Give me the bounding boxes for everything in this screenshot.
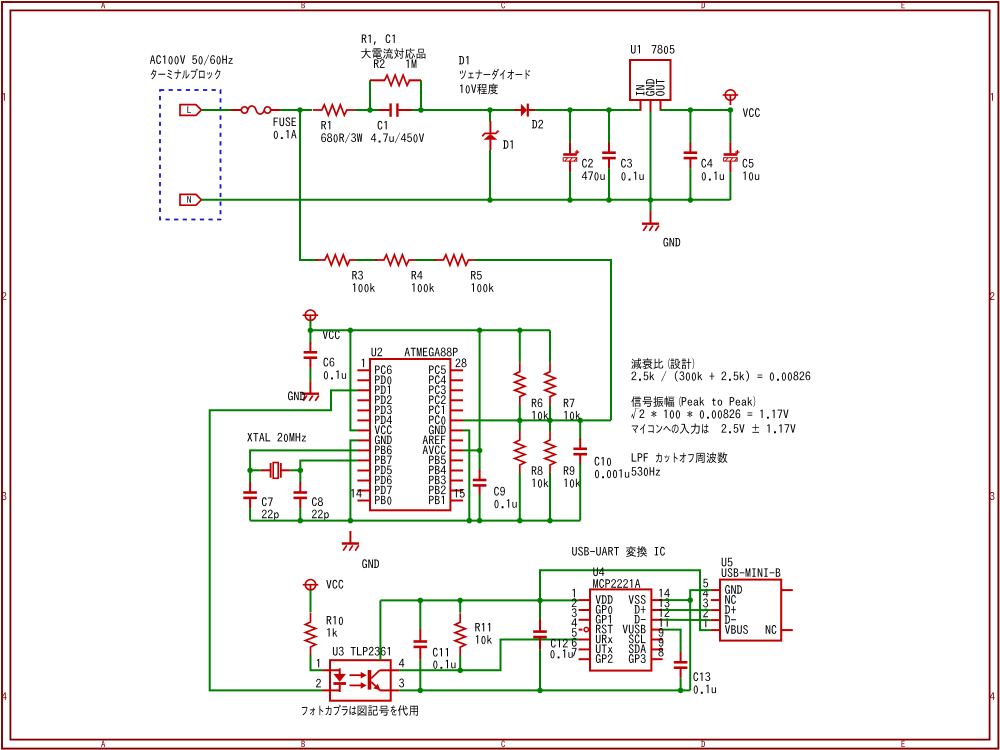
diode D2: [514, 104, 535, 117]
U2 pin label VCC left: [375, 425, 392, 434]
resistor R3: [316, 255, 359, 265]
U3 pin number 2: [316, 679, 321, 688]
resistor R7: [545, 363, 555, 406]
U4 pin label GP3: [629, 654, 646, 663]
wire VCC to R6: [519, 330, 521, 362]
frame column label C top: [501, 2, 505, 9]
value ATMEGA88P: [405, 348, 458, 357]
pin label GND: [646, 79, 655, 96]
label R3: [352, 271, 363, 280]
U2 pin label PB7 left: [375, 456, 392, 464]
value 0.1u C13: [694, 685, 716, 694]
U2 pin number 15: [455, 489, 465, 498]
U5 pin stubs right NC: [781, 590, 793, 630]
U4 pin number 9 right: [659, 638, 664, 647]
junction U2 GND right rail: [467, 518, 473, 524]
capacitor C9: [473, 470, 487, 496]
regulator U1 7805 body: [630, 60, 671, 100]
frame column label A top: [101, 2, 105, 8]
wire to C3: [608, 110, 610, 143]
junction U2 GND rail: [348, 518, 354, 524]
port L: [180, 105, 201, 116]
U5 pin stubs left: [711, 590, 720, 630]
wire rail to U3 top: [379, 600, 381, 660]
U2 pin stubs right: [450, 370, 463, 500]
wire fuse node to R3: [300, 110, 318, 260]
value 10k R6: [532, 411, 548, 420]
U1 pin IN stub: [640, 100, 642, 111]
U2 pin label PC4 right: [429, 375, 446, 384]
frame column label E bottom: [902, 741, 905, 747]
label C10: [595, 457, 612, 466]
wire to C7: [249, 470, 251, 483]
label R8: [532, 466, 543, 475]
U4 pin label SDA: [629, 644, 646, 653]
wire to D1: [489, 110, 491, 122]
U4 pin number 3 left: [572, 608, 577, 617]
net label GND mcu left: [288, 391, 305, 400]
comment D1: [459, 56, 468, 64]
U2 pin stubs left: [357, 370, 370, 500]
value 470u: [582, 172, 605, 181]
comment XTAL: [247, 433, 270, 441]
junction C11 bottom: [418, 688, 424, 694]
wire to C12: [539, 600, 541, 622]
U2 pin label PD1 left: [375, 386, 390, 394]
value 0.1u C11: [433, 660, 455, 669]
U2 pin label GND right: [429, 425, 446, 434]
U2 pin label PC1 right: [429, 405, 444, 414]
wire VCC to U2 pin: [350, 330, 357, 430]
U4 pin number 2 left: [572, 598, 577, 607]
U5 pin label D+: [725, 605, 736, 613]
U4 pin label UTx: [596, 645, 613, 654]
frame column label B bottom: [302, 741, 306, 747]
pin label OUT: [656, 79, 665, 96]
wire C4 to GND rail: [689, 168, 691, 200]
comment terminal block: [151, 69, 221, 80]
value 7805: [652, 45, 675, 54]
wire PB7 to crystal: [300, 460, 357, 470]
wire C11 down: [419, 659, 421, 690]
wire C6 to ground: [309, 368, 311, 381]
comment annotation: [631, 358, 694, 369]
label R6: [532, 398, 543, 407]
value 10k R8: [532, 479, 548, 488]
resistor R2 leads: [370, 79, 385, 81]
U4 pin label URx: [596, 635, 613, 644]
frame column label B top: [302, 2, 306, 8]
U4 pin number 6 left: [572, 638, 577, 647]
ground symbol under C6: [302, 381, 319, 401]
junction fuse node: [297, 107, 303, 113]
wire fuse to R1: [280, 109, 312, 111]
junction C10 top: [577, 418, 583, 424]
port N: [180, 194, 201, 205]
U5 pin label D-: [725, 615, 736, 623]
U4 pin label SCL: [629, 634, 646, 643]
U3 phototransistor: [368, 670, 391, 690]
wire C7 down: [249, 508, 251, 520]
U4 pin number 4 left: [572, 618, 577, 626]
wire R2 right riser: [420, 80, 422, 110]
label U1: [631, 45, 640, 54]
junction R8 bottom: [517, 518, 523, 524]
comment high-current parts: [361, 48, 425, 59]
junction VCC to C9 branch: [477, 328, 483, 334]
label C2: [582, 159, 593, 168]
pin label IN: [636, 85, 644, 95]
value 22p C7: [262, 510, 279, 520]
label C5: [743, 159, 754, 168]
junction C4 bottom: [688, 197, 694, 203]
label C6: [324, 358, 335, 367]
label R10: [327, 616, 343, 625]
wire AVCC: [463, 449, 480, 451]
U4 RST inversion bubble: [584, 627, 588, 631]
junction R7-R9 node: [547, 418, 553, 424]
crystal X1 20MHz: [261, 463, 290, 479]
capacitor C12: [533, 619, 547, 649]
wire C10 down: [579, 463, 581, 521]
U5 pin number 3: [703, 599, 708, 608]
wire to C4: [689, 110, 691, 143]
wire R2 left riser: [369, 80, 371, 110]
net label GND under U2: [362, 559, 379, 568]
wire AVCC to C9: [479, 450, 481, 471]
junction C2 top: [567, 107, 573, 113]
value 0.1u C4: [702, 172, 724, 181]
value 0.001u: [595, 469, 629, 478]
wire R7 to node: [549, 405, 551, 421]
junction node R1-C1: [367, 107, 373, 113]
value 1k: [327, 628, 337, 636]
wire to C8: [299, 470, 301, 483]
wire node to R9: [549, 420, 551, 431]
comment about 10V: [460, 84, 498, 95]
wire VCC rail: [310, 329, 550, 331]
capacitor C4: [684, 143, 698, 169]
comment R1, C1: [362, 34, 395, 45]
U2 pin label PB5 right: [429, 456, 446, 465]
U1 pin OUT stub: [660, 100, 662, 111]
wire USB GND down to rail: [690, 590, 711, 690]
capacitor C3: [602, 143, 616, 169]
U2 pin label PD0 left: [375, 376, 391, 385]
U4 pin number 1 left: [573, 589, 575, 597]
wire OUT to VCC: [661, 109, 731, 111]
power symbol VCC mcu: [303, 310, 319, 325]
optocoupler U3 TLP2361 body: [330, 660, 391, 701]
wire to C6: [309, 330, 311, 343]
junction C13 bottom: [678, 688, 684, 694]
junction R11 opto out: [457, 668, 463, 674]
wire D-: [663, 619, 711, 621]
label D2: [532, 120, 543, 129]
frame row label 1 left: [3, 93, 5, 101]
capacitor C8: [294, 482, 308, 508]
U2 pin label PC2 right: [429, 395, 446, 404]
U2 pin label PD5 left: [375, 466, 392, 475]
net label GND: [663, 238, 680, 247]
U4 pin stubs left: [579, 600, 590, 659]
net label VCC mcu: [323, 330, 340, 339]
value MCP2221A: [593, 579, 640, 588]
U5 pin number 2: [703, 609, 708, 618]
junction crystal right: [298, 468, 304, 474]
wire GND rail under U2: [250, 520, 580, 522]
value 0.1A: [274, 130, 297, 139]
comment USB-UART IC: [572, 546, 665, 557]
junction node C1 right: [418, 107, 424, 113]
wire VCC to R7: [549, 330, 551, 362]
U2 pin label PB1 right: [429, 496, 444, 504]
resistor R2: [376, 75, 419, 85]
label C8: [312, 497, 323, 506]
wire R10 to opto pin1: [311, 655, 323, 670]
wire C12 down: [539, 649, 541, 690]
comment annotation: [631, 408, 788, 419]
wire R11 down: [459, 655, 461, 670]
U4 pin number 5 left: [572, 628, 577, 637]
label C12: [551, 639, 568, 648]
wire VCC to AVCC: [479, 330, 481, 450]
net label VCC top: [743, 108, 760, 117]
U2 pin label PC3 right: [429, 385, 446, 394]
U4 pin label VDD: [596, 595, 613, 603]
wire VUSB to C13: [663, 630, 681, 653]
wire to C5: [729, 110, 731, 142]
U5 pin number 5: [703, 579, 708, 588]
capacitor C7: [243, 482, 257, 508]
junction VCC mcu: [308, 328, 314, 334]
value 4.7u/450V: [371, 133, 424, 144]
U2 pin label PC0 right: [429, 415, 445, 424]
U4 pin label VUSB: [623, 625, 646, 634]
comment annotation: [632, 467, 661, 476]
net label VCC opto: [326, 580, 343, 589]
wire node to C10: [579, 420, 581, 439]
value 10u: [743, 172, 759, 181]
junction D1 top: [487, 107, 493, 113]
wire VCC to R10: [310, 590, 312, 613]
frame row label 2 right: [990, 292, 995, 300]
wire D2 to U1 IN: [535, 109, 641, 111]
U2 pin label AREF right: [423, 436, 446, 444]
value 10k R11: [476, 635, 492, 644]
junction R6-R8 node: [517, 418, 523, 424]
value USB-MINI-B: [722, 568, 781, 577]
U4 pin label D-: [635, 615, 646, 623]
U3 pin number 1: [317, 659, 319, 667]
comment annotation: [631, 371, 810, 382]
wire R4 to R5: [415, 259, 437, 261]
junction R11 top: [457, 598, 463, 604]
U3 pin 2 stub: [323, 689, 340, 691]
capacitor C1: [379, 103, 413, 116]
wire U2 GND right down: [463, 430, 469, 520]
resistor R8: [515, 431, 525, 474]
resistor R6: [515, 363, 525, 406]
wire D+: [663, 609, 711, 611]
resistor R9: [545, 431, 555, 474]
comment annotation: [632, 424, 796, 435]
U3 pin 4 stub: [391, 669, 400, 671]
power symbol VCC opto: [303, 580, 319, 595]
junction VSS GND node: [687, 597, 693, 603]
value 100k R3: [353, 283, 375, 292]
U2 pin label PD7 left: [375, 486, 392, 494]
U4 pin number 8 right: [658, 648, 663, 657]
frame row label 2 left: [2, 292, 7, 300]
wire R6 to node: [519, 405, 521, 421]
wire R8 down: [519, 473, 521, 521]
capacitor C13: [674, 652, 688, 678]
wire N rail: [201, 199, 730, 201]
ground symbol under U1: [642, 211, 659, 231]
wire node to R8: [519, 420, 521, 431]
wire R9 down: [549, 473, 551, 521]
U2 pin label PB6 left: [375, 445, 392, 454]
frame row label 3 right: [990, 492, 995, 500]
label C13: [693, 672, 710, 681]
comment annotation: [631, 396, 755, 407]
U4 pin number 13 right: [659, 598, 669, 607]
wire C9 down: [479, 494, 481, 520]
capacitor C11: [414, 629, 428, 659]
junction VCC to R6: [517, 328, 523, 334]
U2 pin label AVCC right: [423, 445, 446, 454]
frame column label C bottom: [501, 741, 505, 748]
junction C12 top: [537, 598, 543, 604]
wire C5 to GND rail: [729, 172, 731, 200]
U3 pin number 4: [399, 659, 404, 667]
U4 pin label GP1: [596, 615, 611, 624]
U2 pin number 14: [351, 489, 361, 497]
U5 pin number 4: [703, 589, 708, 597]
value 0.1u C6: [324, 370, 346, 379]
U4 pin number 11 right: [659, 618, 667, 626]
U4 pin number 14 right: [659, 589, 669, 597]
terminal block dashed outline: [160, 90, 221, 220]
label R4: [412, 271, 423, 279]
label U3 TLP2361: [333, 647, 390, 656]
wire C8 down: [299, 508, 301, 520]
comment zener diode: [460, 69, 531, 80]
wire C3 to GND rail: [608, 168, 610, 200]
resistor R5: [434, 255, 477, 265]
value 100k R5: [472, 283, 494, 292]
U4 pin number 7 left: [572, 648, 577, 656]
U2 pin label PC6 left: [375, 365, 392, 374]
label R7: [564, 399, 575, 407]
junction C11 top: [418, 598, 424, 604]
capacitor C10: [573, 439, 587, 465]
value 0.1u C3: [621, 172, 643, 181]
U2 pin label PB2 right: [429, 486, 446, 495]
U4 pin number 12 right: [659, 608, 669, 617]
value 10k R9: [564, 479, 580, 488]
U4 pin number 9 right: [659, 628, 664, 637]
connector U5 USB-MINI-B body: [720, 580, 781, 641]
frame column label E top: [902, 2, 905, 8]
U4 pin label GP0: [596, 605, 613, 614]
wire VSS to GND net: [663, 599, 691, 601]
capacitor C5: [724, 142, 740, 172]
wire to C11: [419, 600, 421, 629]
U2 pin label PD4 left: [375, 416, 392, 424]
junction R9 bottom: [547, 518, 553, 524]
label R9: [564, 466, 575, 475]
value 0.1u C12: [550, 649, 572, 658]
wire C13 down: [680, 678, 682, 690]
ground symbol under U2: [342, 531, 359, 551]
U2 pin label GND left: [375, 435, 392, 444]
junction AVCC node: [477, 448, 483, 454]
wire bottom GND rail: [399, 689, 690, 691]
wire R3 to R4: [356, 259, 377, 261]
junction VCC to U2: [348, 328, 354, 334]
U3 LED light arrows: [350, 672, 367, 689]
fuse FUSE: [231, 106, 280, 114]
wire C1 to D2: [412, 109, 514, 111]
wire VBUS to VDD rail: [540, 570, 711, 630]
U2 pin label PD6 left: [375, 475, 392, 484]
wire PC0 row: [463, 419, 611, 421]
value 0.1u C9: [494, 499, 516, 508]
wire to R11: [459, 600, 461, 612]
wire L to fuse: [201, 109, 231, 111]
comment annotation: [632, 452, 728, 463]
wire C2 to GND rail: [569, 172, 571, 200]
label U4: [593, 568, 604, 577]
resistor R10: [305, 613, 315, 656]
capacitor C2: [563, 142, 579, 172]
label R1: [321, 121, 330, 129]
resistor R4: [375, 255, 418, 265]
U2 pin label PB3 right: [429, 475, 446, 484]
U3 pin number 3: [399, 679, 404, 688]
U2 pin label PD2 left: [375, 395, 392, 404]
diode D1 zener: [482, 121, 498, 150]
value 100k R4: [412, 283, 434, 292]
junction C4 top: [688, 107, 694, 113]
resistor R11: [455, 613, 465, 656]
junction C8 bottom: [298, 518, 304, 524]
U5 pin label NC right: [766, 625, 777, 634]
junction crystal left: [247, 468, 253, 474]
label C7: [262, 497, 273, 506]
junction C9 bottom: [477, 518, 483, 524]
frame column label A bottom: [101, 741, 105, 747]
frame row label 4 right: [990, 692, 995, 700]
U5 pin label NC: [725, 595, 736, 604]
frame row label 3 left: [2, 492, 7, 500]
U5 pin label GND: [725, 585, 742, 594]
label C3: [621, 159, 632, 168]
U5 pin number 1: [704, 619, 706, 627]
ic U4 MCP2221A body: [590, 589, 651, 670]
comment photocoupler note: [302, 705, 418, 716]
junction C12 bottom: [537, 688, 543, 694]
wire VDD rail: [380, 599, 578, 601]
wire D1 to N rail: [489, 150, 491, 200]
U5 pin label VBUS: [725, 625, 748, 634]
U4 pin label D+: [635, 605, 646, 613]
frame row label 4 left: [2, 692, 7, 700]
label U2: [372, 348, 383, 357]
label C1: [378, 121, 387, 130]
